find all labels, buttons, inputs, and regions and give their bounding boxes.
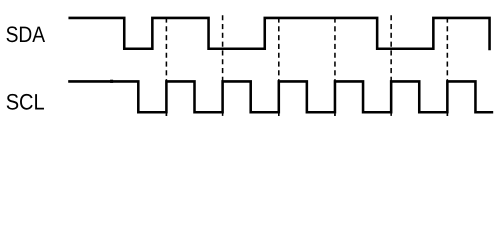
svg-text:SCL: SCL bbox=[6, 89, 45, 114]
svg-text:SDA: SDA bbox=[6, 22, 46, 47]
